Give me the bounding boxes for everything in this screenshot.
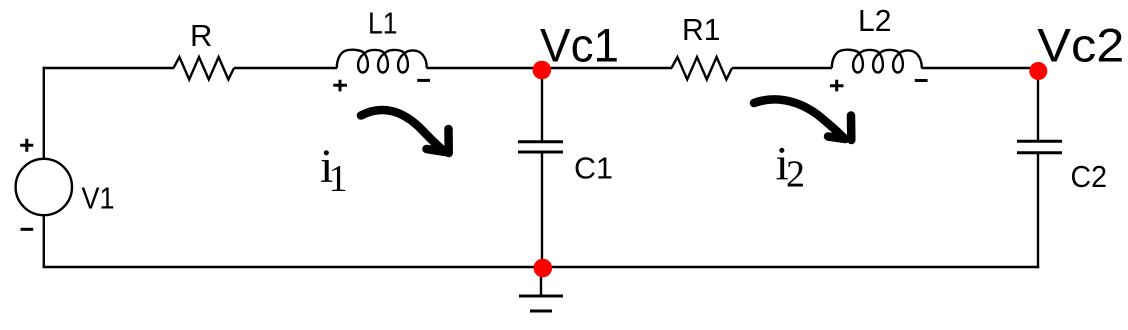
svg-text:R: R [190, 18, 212, 53]
svg-text:L2: L2 [858, 3, 892, 38]
svg-text:C1: C1 [574, 151, 613, 186]
svg-text:Vc2: Vc2 [1037, 19, 1124, 72]
svg-text:R1: R1 [682, 12, 721, 47]
svg-text:C2: C2 [1071, 159, 1108, 194]
svg-text:V1: V1 [82, 181, 115, 216]
svg-text:L1: L1 [368, 6, 398, 41]
svg-text:1: 1 [329, 158, 348, 200]
svg-text:Vc1: Vc1 [540, 19, 619, 72]
svg-text:2: 2 [786, 154, 805, 196]
